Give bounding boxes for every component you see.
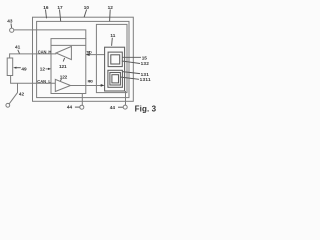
leader 17 (60, 10, 61, 22)
tick 121 (63, 58, 64, 62)
leader 16 (46, 10, 47, 19)
transceiver partition line (51, 44, 86, 46)
svg-text:17: 17 (57, 5, 63, 10)
RXD line from triangle tip (71, 85, 104, 87)
leader 10 (84, 10, 87, 18)
svg-text:131: 131 (141, 72, 150, 77)
svg-text:16: 16 (43, 5, 49, 10)
leader 43 (10, 24, 13, 28)
terminal 43 circle (10, 28, 14, 32)
resistor 49 (7, 58, 13, 76)
12 interior arrow line (46, 68, 50, 70)
leader 1311 (120, 77, 139, 79)
CAN_H wire (10, 54, 57, 58)
svg-text:12: 12 (40, 67, 46, 72)
bottom-left terminal wire (81, 94, 83, 106)
lower triangle 122 (55, 79, 70, 91)
arrowhead 12 interior (48, 68, 51, 70)
svg-text:41: 41 (15, 45, 21, 50)
bottom-right terminal wire (from block 11) (125, 91, 127, 105)
svg-text:RXD: RXD (88, 80, 94, 84)
svg-text:132: 132 (141, 61, 150, 66)
TXD arrow line (86, 54, 104, 56)
svg-text:1311: 1311 (140, 77, 151, 82)
wire terminal43 to transceiver top (14, 30, 86, 39)
svg-text:121: 121 (59, 64, 67, 69)
outer station box 10 (33, 17, 134, 101)
svg-text:12: 12 (108, 5, 114, 10)
svg-text:49: 49 (21, 67, 27, 72)
terminal 42 circle (6, 103, 10, 107)
svg-text:43: 43 (7, 19, 13, 24)
svg-text:44: 44 (67, 105, 73, 110)
dash 44 (75, 106, 80, 108)
leader 12 top (109, 10, 112, 22)
upper square 132 outer (108, 52, 122, 67)
leader 132 (122, 61, 140, 64)
leader 49 arrow (16, 67, 21, 69)
arrowhead 49 (13, 67, 16, 69)
lower square 131 mid (110, 73, 121, 86)
dash 44 right (118, 106, 123, 108)
leader 41 (18, 50, 20, 54)
block 11 (105, 47, 125, 91)
lower square 1311 inner (112, 75, 119, 83)
svg-text:15: 15 (142, 55, 148, 60)
svg-text:42: 42 (19, 91, 25, 96)
leader 15 (123, 56, 142, 58)
svg-text:122: 122 (60, 74, 68, 79)
lower square 131 outer (108, 70, 123, 87)
svg-text:TXD: TXD (86, 50, 92, 54)
tick 122 (60, 79, 63, 81)
terminal 44 circle (80, 105, 84, 109)
svg-text:11: 11 (110, 33, 115, 38)
svg-text:Fig. 3: Fig. 3 (135, 104, 157, 113)
resistor bottom wire / CAN_L wire (11, 76, 56, 84)
upper square 132 inner (111, 55, 120, 64)
arrowhead RXD (101, 84, 105, 87)
wire 42 branch (9, 83, 17, 104)
terminal 44 right circle (123, 105, 127, 109)
leader 131 (123, 72, 141, 74)
microcontroller box (96, 24, 127, 92)
svg-text:44: 44 (110, 105, 116, 110)
inner station box (37, 21, 129, 97)
arrowhead TXD (86, 53, 90, 56)
upper triangle 121 (56, 46, 71, 59)
transceiver box 12 (51, 39, 86, 94)
svg-text:CAN_L: CAN_L (37, 79, 51, 84)
leader 11 (111, 38, 114, 46)
svg-text:10: 10 (84, 5, 90, 10)
svg-text:CAN_H: CAN_H (38, 49, 52, 54)
